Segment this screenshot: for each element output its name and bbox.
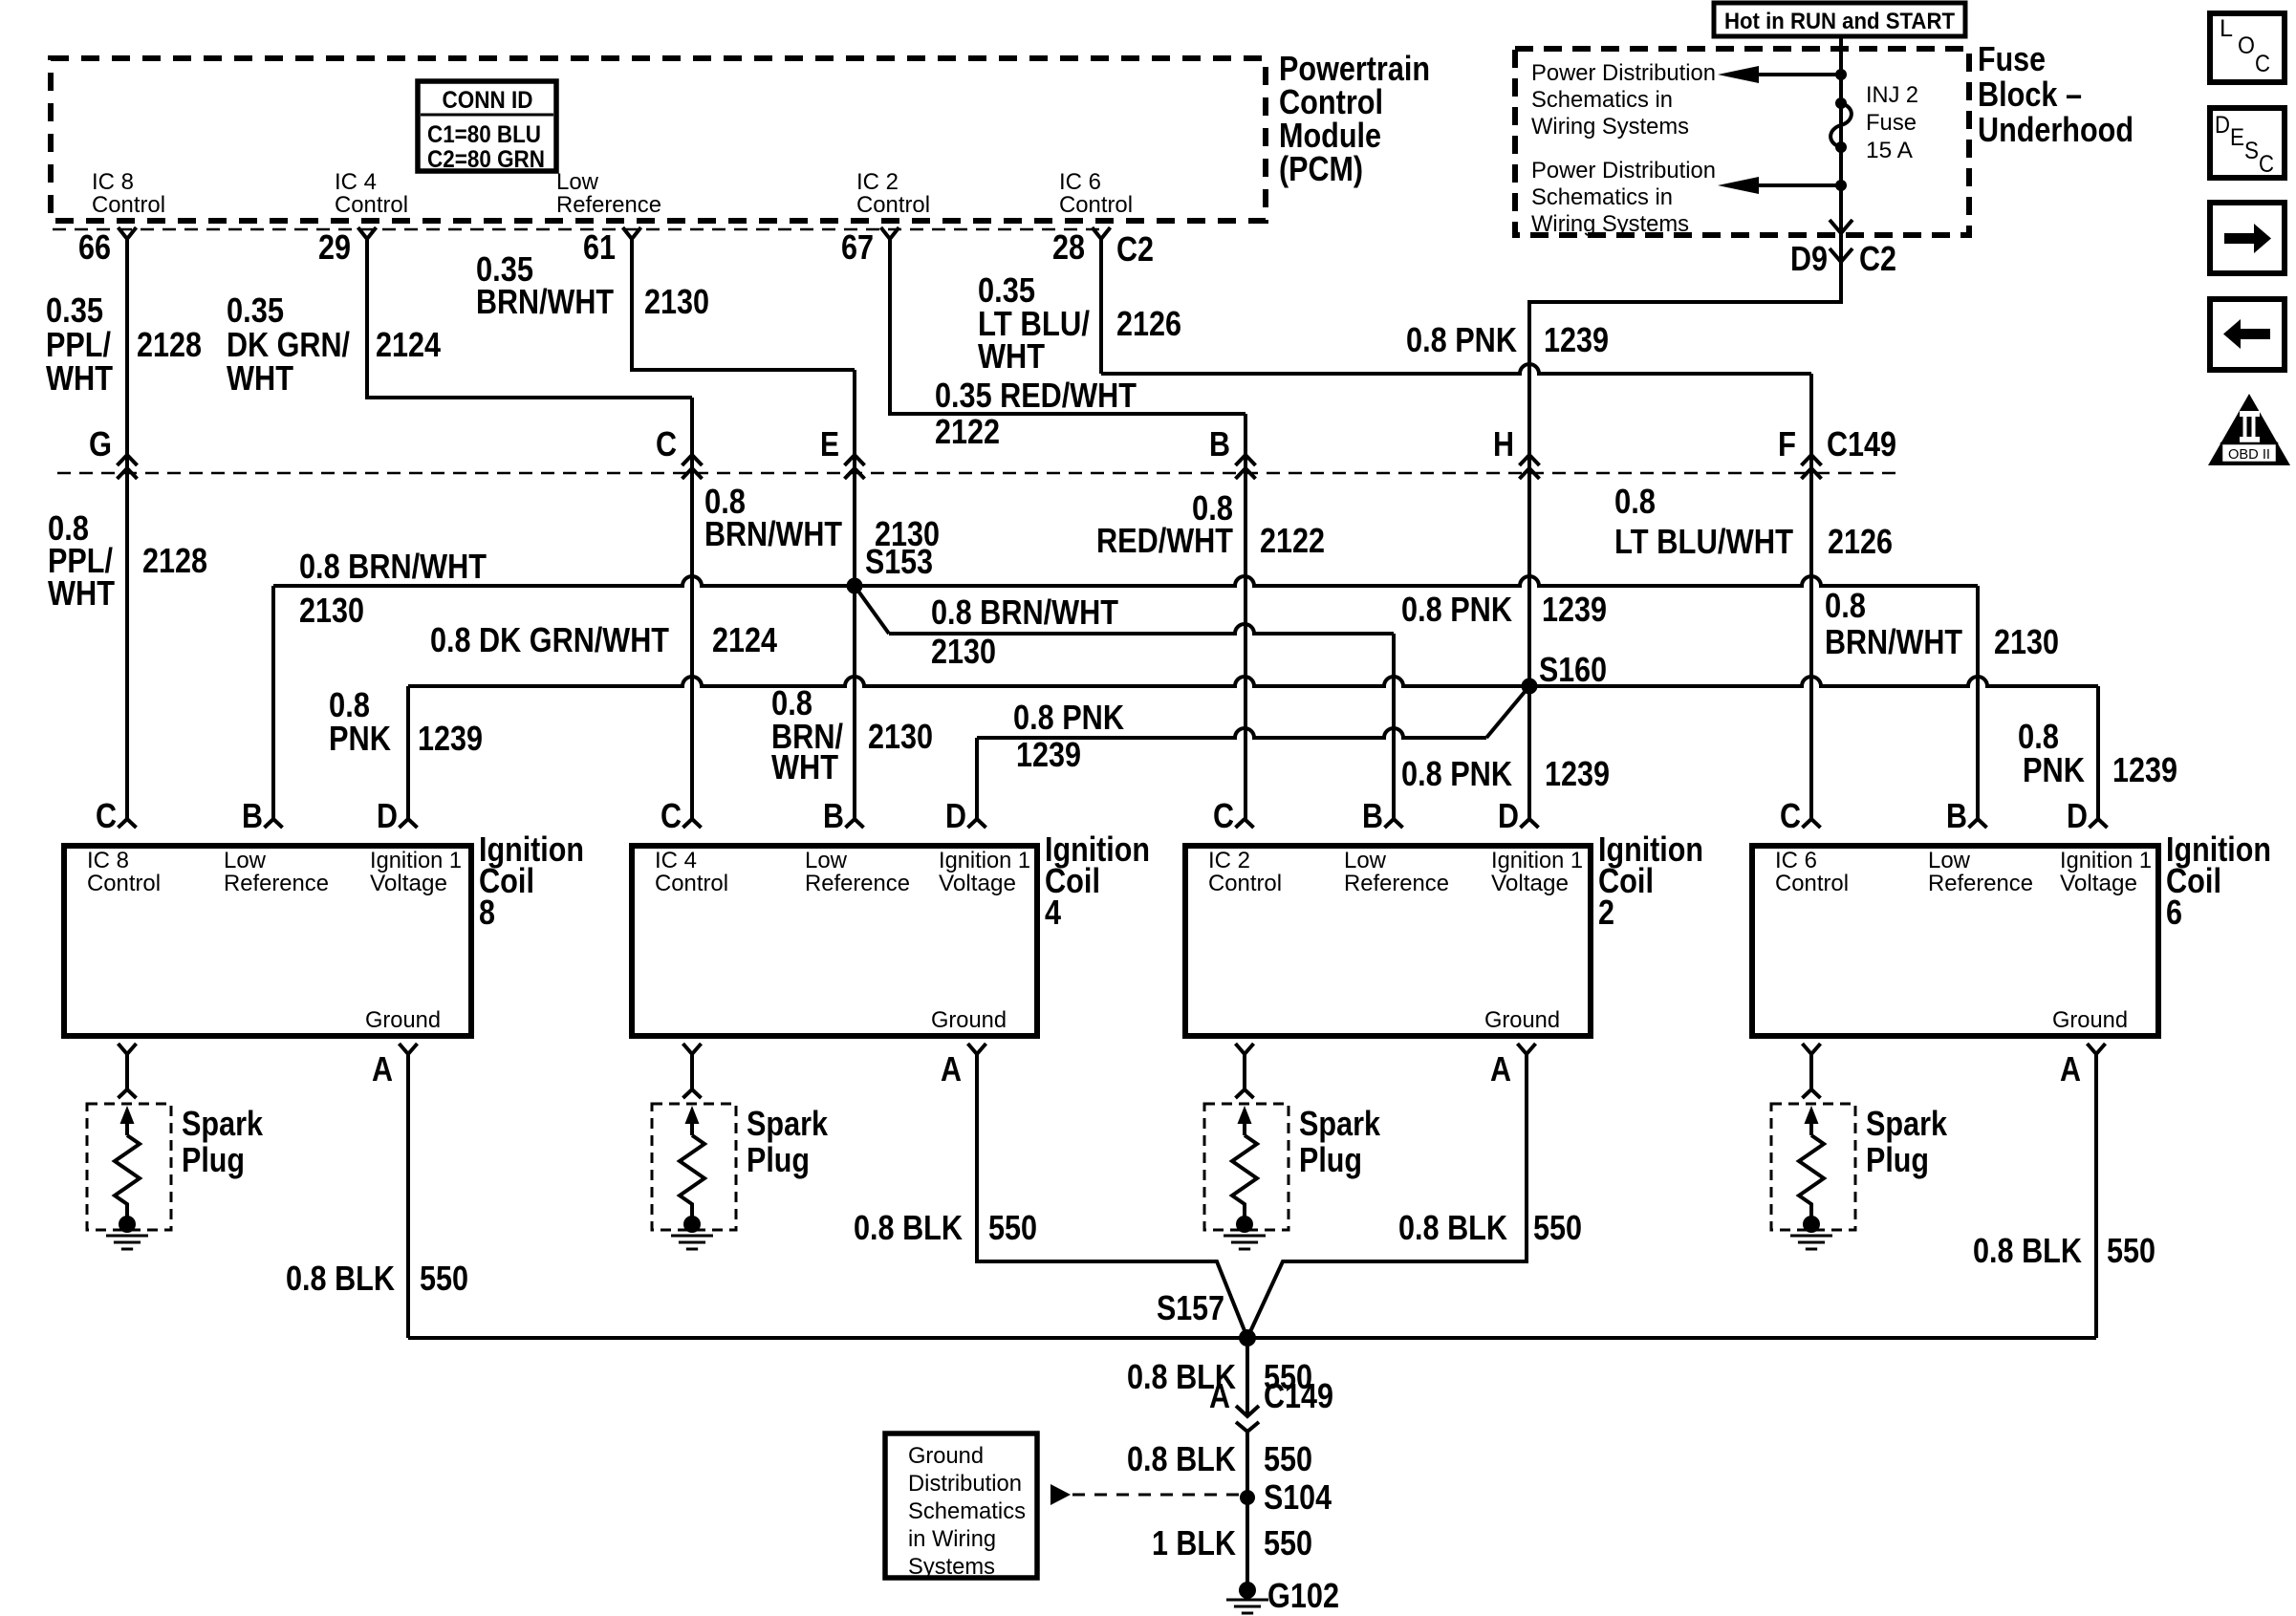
svg-text:Underhood: Underhood [1978, 110, 2134, 149]
svg-text:BRN/WHT: BRN/WHT [704, 514, 842, 553]
svg-text:C2: C2 [1116, 229, 1154, 269]
svg-text:Power Distribution: Power Distribution [1531, 158, 1716, 183]
svg-text:H: H [1493, 424, 1514, 463]
svg-text:Low: Low [805, 848, 847, 873]
svg-text:2126: 2126 [1116, 304, 1181, 343]
svg-text:Fuse: Fuse [1866, 110, 1917, 136]
svg-text:WHT: WHT [48, 573, 115, 613]
svg-text:2128: 2128 [142, 541, 207, 580]
svg-text:C: C [1780, 796, 1801, 835]
svg-text:WHT: WHT [46, 358, 113, 398]
svg-text:550: 550 [1533, 1208, 1582, 1247]
svg-text:0.8 PNK: 0.8 PNK [1013, 698, 1124, 737]
svg-text:S104: S104 [1264, 1477, 1332, 1517]
svg-text:D: D [1498, 796, 1519, 835]
svg-text:2128: 2128 [137, 325, 202, 364]
svg-text:C: C [2259, 151, 2274, 178]
svg-text:0.8 BLK: 0.8 BLK [1127, 1439, 1236, 1478]
svg-text:Distribution: Distribution [908, 1471, 1022, 1497]
svg-text:2130: 2130 [299, 591, 364, 630]
svg-text:Control: Control [1059, 192, 1133, 218]
svg-text:Control: Control [92, 192, 165, 218]
svg-text:8: 8 [479, 893, 495, 932]
svg-text:IC 2: IC 2 [856, 169, 899, 195]
svg-text:2124: 2124 [712, 620, 777, 659]
svg-text:C: C [2255, 51, 2270, 77]
svg-text:2126: 2126 [1828, 522, 1893, 561]
svg-text:67: 67 [841, 227, 874, 267]
svg-text:550: 550 [420, 1259, 468, 1298]
svg-text:IC 6: IC 6 [1775, 848, 1817, 873]
svg-text:C2=80 GRN: C2=80 GRN [427, 146, 545, 173]
svg-text:Low: Low [1344, 848, 1386, 873]
svg-text:G102: G102 [1267, 1576, 1339, 1615]
svg-text:1 BLK: 1 BLK [1152, 1523, 1236, 1562]
svg-text:E: E [2230, 124, 2244, 151]
svg-text:0.8 PNK: 0.8 PNK [1406, 320, 1517, 359]
svg-text:Reference: Reference [805, 871, 910, 896]
svg-text:0.8: 0.8 [1825, 586, 1866, 625]
svg-text:LT BLU/WHT: LT BLU/WHT [1614, 522, 1793, 561]
svg-text:Voltage: Voltage [1491, 871, 1569, 896]
svg-text:Schematics in: Schematics in [1531, 87, 1673, 113]
svg-text:O: O [2238, 32, 2255, 59]
svg-text:Voltage: Voltage [939, 871, 1016, 896]
svg-text:INJ 2: INJ 2 [1866, 82, 1918, 108]
svg-text:0.8 PNK: 0.8 PNK [1401, 590, 1512, 629]
svg-text:Voltage: Voltage [2060, 871, 2137, 896]
svg-text:A: A [2060, 1049, 2081, 1088]
svg-text:Ground: Ground [908, 1443, 984, 1469]
svg-text:2130: 2130 [931, 632, 996, 671]
svg-text:A: A [941, 1049, 962, 1088]
svg-text:4: 4 [1045, 893, 1061, 932]
svg-text:2124: 2124 [376, 325, 441, 364]
svg-text:Ignition 1: Ignition 1 [939, 848, 1030, 873]
svg-text:IC 8: IC 8 [92, 169, 134, 195]
svg-text:IC 4: IC 4 [335, 169, 377, 195]
svg-text:28: 28 [1052, 227, 1085, 267]
svg-text:WHT: WHT [771, 747, 838, 786]
svg-text:C2: C2 [1859, 239, 1896, 278]
svg-text:1239: 1239 [1545, 754, 1610, 793]
svg-text:G: G [89, 424, 112, 463]
svg-text:Ground: Ground [931, 1007, 1007, 1033]
svg-text:S: S [2244, 138, 2259, 164]
svg-text:0.8 BRN/WHT: 0.8 BRN/WHT [299, 547, 487, 586]
svg-text:0.8 BLK: 0.8 BLK [286, 1259, 395, 1298]
svg-text:Spark: Spark [182, 1104, 264, 1143]
svg-text:A: A [372, 1049, 393, 1088]
svg-text:B: B [1362, 796, 1383, 835]
svg-text:Schematics in: Schematics in [1531, 184, 1673, 210]
svg-text:BRN/WHT: BRN/WHT [476, 282, 614, 321]
svg-text:0.8: 0.8 [1614, 482, 1656, 521]
svg-text:Plug: Plug [1866, 1140, 1929, 1179]
svg-text:Ground: Ground [365, 1007, 441, 1033]
svg-text:Ignition 1: Ignition 1 [1491, 848, 1583, 873]
svg-text:61: 61 [583, 227, 616, 267]
svg-text:Fuse: Fuse [1978, 39, 2046, 78]
svg-text:Plug: Plug [1299, 1140, 1362, 1179]
svg-text:C1=80 BLU: C1=80 BLU [427, 121, 541, 148]
svg-text:Wiring Systems: Wiring Systems [1531, 114, 1689, 140]
svg-text:2: 2 [1598, 893, 1614, 932]
svg-text:Power Distribution: Power Distribution [1531, 60, 1716, 86]
svg-text:Control: Control [335, 192, 408, 218]
svg-text:Voltage: Voltage [370, 871, 447, 896]
svg-text:B: B [242, 796, 263, 835]
svg-text:OBD II: OBD II [2228, 446, 2270, 463]
svg-text:Control: Control [856, 192, 930, 218]
svg-text:B: B [823, 796, 844, 835]
svg-text:550: 550 [2107, 1231, 2155, 1270]
svg-text:D: D [945, 796, 966, 835]
svg-text:0.8 BLK: 0.8 BLK [854, 1208, 963, 1247]
svg-text:E: E [820, 424, 839, 463]
svg-text:Spark: Spark [747, 1104, 829, 1143]
svg-text:in Wiring: in Wiring [908, 1526, 996, 1552]
svg-text:Reference: Reference [224, 871, 329, 896]
svg-text:0.8 BRN/WHT: 0.8 BRN/WHT [931, 593, 1118, 632]
svg-text:B: B [1209, 424, 1230, 463]
svg-text:Reference: Reference [556, 192, 661, 218]
svg-text:Plug: Plug [182, 1140, 245, 1179]
svg-text:0.8 BLK: 0.8 BLK [1973, 1231, 2082, 1270]
svg-text:Spark: Spark [1866, 1104, 1948, 1143]
svg-text:C: C [1213, 796, 1234, 835]
svg-text:0.35: 0.35 [227, 291, 284, 330]
svg-text:Reference: Reference [1344, 871, 1449, 896]
svg-text:C149: C149 [1827, 424, 1896, 463]
svg-text:A: A [1209, 1376, 1230, 1415]
svg-text:Control: Control [1775, 871, 1849, 896]
svg-text:66: 66 [78, 227, 111, 267]
svg-text:6: 6 [2166, 893, 2182, 932]
svg-text:2130: 2130 [644, 282, 709, 321]
svg-text:D: D [2067, 796, 2088, 835]
svg-text:D: D [377, 796, 398, 835]
svg-text:Plug: Plug [747, 1140, 810, 1179]
svg-text:0.35: 0.35 [46, 291, 103, 330]
svg-text:IC 6: IC 6 [1059, 169, 1101, 195]
svg-text:2122: 2122 [1260, 521, 1325, 560]
svg-text:Ground: Ground [2052, 1007, 2128, 1033]
svg-text:D: D [2215, 112, 2230, 139]
svg-text:Schematics: Schematics [908, 1498, 1026, 1524]
svg-text:15 A: 15 A [1866, 138, 1914, 163]
svg-text:Low: Low [1928, 848, 1970, 873]
svg-text:IC 4: IC 4 [655, 848, 697, 873]
svg-text:Wiring Systems: Wiring Systems [1531, 211, 1689, 237]
svg-text:D9: D9 [1790, 239, 1828, 278]
svg-text:CONN ID: CONN ID [443, 87, 533, 114]
svg-text:1239: 1239 [1016, 735, 1081, 774]
svg-text:L: L [2220, 15, 2233, 42]
svg-text:PNK: PNK [2023, 750, 2085, 789]
svg-text:Control: Control [1208, 871, 1282, 896]
svg-text:0.35 RED/WHT: 0.35 RED/WHT [935, 376, 1137, 415]
svg-text:C: C [96, 796, 117, 835]
svg-text:Low: Low [224, 848, 266, 873]
svg-text:2122: 2122 [935, 412, 1000, 451]
svg-text:Systems: Systems [908, 1554, 995, 1580]
svg-text:Reference: Reference [1928, 871, 2033, 896]
svg-text:B: B [1946, 796, 1967, 835]
svg-text:2130: 2130 [868, 717, 933, 756]
svg-text:Control: Control [655, 871, 728, 896]
svg-text:Ignition 1: Ignition 1 [370, 848, 462, 873]
svg-text:Ground: Ground [1484, 1007, 1560, 1033]
svg-text:1239: 1239 [1542, 590, 1607, 629]
svg-text:C: C [661, 796, 682, 835]
svg-text:S160: S160 [1539, 650, 1607, 689]
svg-text:PNK: PNK [329, 719, 391, 758]
svg-text:550: 550 [1264, 1523, 1312, 1562]
svg-text:BRN/WHT: BRN/WHT [1825, 622, 1962, 661]
svg-text:WHT: WHT [227, 358, 293, 398]
svg-text:(PCM): (PCM) [1279, 149, 1363, 188]
svg-text:1239: 1239 [2112, 750, 2177, 789]
svg-text:WHT: WHT [978, 336, 1045, 376]
svg-text:1239: 1239 [418, 719, 483, 758]
svg-text:Hot in RUN and START: Hot in RUN and START [1724, 9, 1955, 34]
svg-text:Spark: Spark [1299, 1104, 1381, 1143]
svg-text:Control: Control [87, 871, 161, 896]
svg-text:550: 550 [988, 1208, 1037, 1247]
svg-text:C149: C149 [1264, 1376, 1333, 1415]
svg-text:550: 550 [1264, 1439, 1312, 1478]
svg-text:0.8 DK GRN/WHT: 0.8 DK GRN/WHT [430, 620, 669, 659]
svg-text:IC 2: IC 2 [1208, 848, 1250, 873]
svg-text:Low: Low [556, 169, 598, 195]
svg-text:RED/WHT: RED/WHT [1096, 521, 1233, 560]
svg-text:Ignition 1: Ignition 1 [2060, 848, 2152, 873]
svg-text:29: 29 [318, 227, 351, 267]
svg-text:0.8 PNK: 0.8 PNK [1401, 754, 1512, 793]
svg-text:A: A [1490, 1049, 1511, 1088]
svg-text:S157: S157 [1157, 1288, 1224, 1327]
svg-text:F: F [1778, 424, 1796, 463]
svg-text:IC 8: IC 8 [87, 848, 129, 873]
svg-text:0.8 BLK: 0.8 BLK [1398, 1208, 1507, 1247]
svg-text:Block –: Block – [1978, 75, 2082, 114]
svg-text:S153: S153 [865, 542, 933, 581]
svg-text:C: C [656, 424, 677, 463]
svg-text:2130: 2130 [1994, 622, 2059, 661]
svg-text:1239: 1239 [1544, 320, 1609, 359]
